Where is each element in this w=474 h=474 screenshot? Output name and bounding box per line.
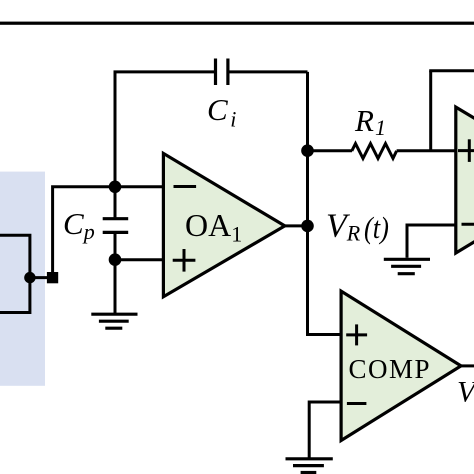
wire inverting input — [115, 185, 163, 188]
ground U2 — [384, 259, 430, 273]
wire feedback right vertical — [306, 72, 309, 151]
svg-text:R1: R1 — [354, 103, 386, 140]
svg-text:COMP: COMP — [349, 354, 432, 384]
wire node to Cp — [114, 187, 117, 218]
wire R1 to op-amp U2 — [397, 149, 456, 152]
wire node up to feedback — [114, 72, 117, 187]
node feedback R1 junction — [301, 144, 314, 157]
U2 minus sign — [462, 223, 474, 226]
node inverting input — [109, 181, 122, 194]
wire COMP output — [461, 364, 474, 367]
wire bus to COMP plus — [308, 333, 342, 335]
comparator COMP — [341, 291, 461, 440]
svg-text:Cp: Cp — [63, 206, 95, 244]
node sensor junction — [24, 272, 35, 283]
COMP plus sign — [346, 324, 367, 345]
wire noninverting input — [115, 258, 163, 261]
node noninverting input — [109, 253, 122, 266]
capacitor Cp — [103, 219, 129, 233]
resistor R1 — [352, 144, 397, 159]
wire U2 feedback top — [429, 69, 474, 72]
capacitor Ci — [216, 59, 228, 86]
wire U2 minus input — [407, 225, 456, 258]
wire COMP minus input — [309, 402, 341, 458]
wire node to R1 — [308, 149, 353, 152]
OA1 plus sign — [173, 249, 196, 272]
wire plus node to ground — [114, 260, 117, 314]
op-amp U2 (partial right) — [456, 107, 474, 253]
sensor block (blue region) — [0, 172, 45, 386]
wire bus vertical — [306, 151, 309, 335]
wire OA1 output — [285, 224, 308, 227]
svg-text:V: V — [457, 376, 474, 409]
wire sensor to terminal — [30, 276, 47, 279]
ground Cp — [91, 314, 137, 328]
OA1 minus sign — [174, 185, 197, 188]
svg-text:(t): (t) — [364, 211, 389, 245]
ground COMP — [286, 459, 333, 473]
node VR output — [301, 220, 314, 233]
wire feedback top right — [230, 70, 308, 73]
wire U2 feedback vertical — [429, 71, 432, 151]
svg-text:Ci: Ci — [207, 92, 236, 132]
COMP minus sign — [347, 402, 367, 405]
op-amp OA1 — [163, 153, 284, 296]
frame top border — [0, 22, 474, 25]
wire sensor loop — [0, 235, 30, 312]
wire feedback top left — [114, 70, 215, 73]
terminal square — [47, 272, 58, 283]
svg-text:VR: VR — [326, 207, 361, 245]
wire terminal to input node — [53, 187, 115, 272]
U2 plus sign — [458, 139, 474, 162]
wire Cp to plus node — [114, 234, 117, 260]
